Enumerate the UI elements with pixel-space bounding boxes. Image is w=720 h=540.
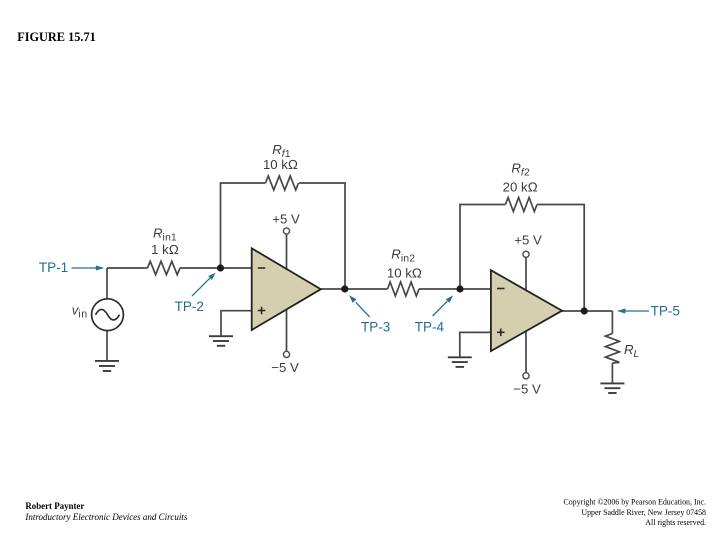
svg-text:Introductory Electronic Device: Introductory Electronic Devices and Circ… — [24, 512, 187, 522]
svg-text:Rin2: Rin2 — [391, 246, 415, 264]
svg-text:TP-1: TP-1 — [39, 260, 68, 275]
svg-text:RL: RL — [624, 342, 640, 360]
svg-text:+5 V: +5 V — [272, 212, 300, 227]
svg-text:+5 V: +5 V — [514, 233, 542, 248]
svg-text:Upper Saddle River, New Jersey: Upper Saddle River, New Jersey 07458 — [581, 508, 706, 517]
svg-text:Copyright ©2006 by Pearson Edu: Copyright ©2006 by Pearson Education, In… — [563, 498, 706, 507]
svg-text:TP-5: TP-5 — [651, 304, 680, 319]
svg-text:Rin1: Rin1 — [153, 226, 177, 244]
svg-text:Rf2: Rf2 — [511, 161, 530, 179]
svg-text:TP-3: TP-3 — [361, 320, 390, 335]
svg-text:FIGURE 15.71: FIGURE 15.71 — [17, 30, 96, 44]
svg-text:All rights reserved.: All rights reserved. — [645, 518, 706, 527]
svg-text:TP-4: TP-4 — [415, 320, 445, 335]
svg-text:1 kΩ: 1 kΩ — [151, 242, 179, 257]
svg-text:−5 V: −5 V — [271, 360, 299, 375]
svg-text:−5 V: −5 V — [513, 381, 541, 396]
svg-text:10 kΩ: 10 kΩ — [387, 265, 422, 280]
svg-text:20 kΩ: 20 kΩ — [503, 180, 538, 195]
svg-text:TP-2: TP-2 — [175, 299, 204, 314]
svg-text:Robert Paynter: Robert Paynter — [25, 501, 84, 511]
svg-text:vin: vin — [72, 303, 88, 321]
svg-text:10 kΩ: 10 kΩ — [263, 157, 298, 172]
